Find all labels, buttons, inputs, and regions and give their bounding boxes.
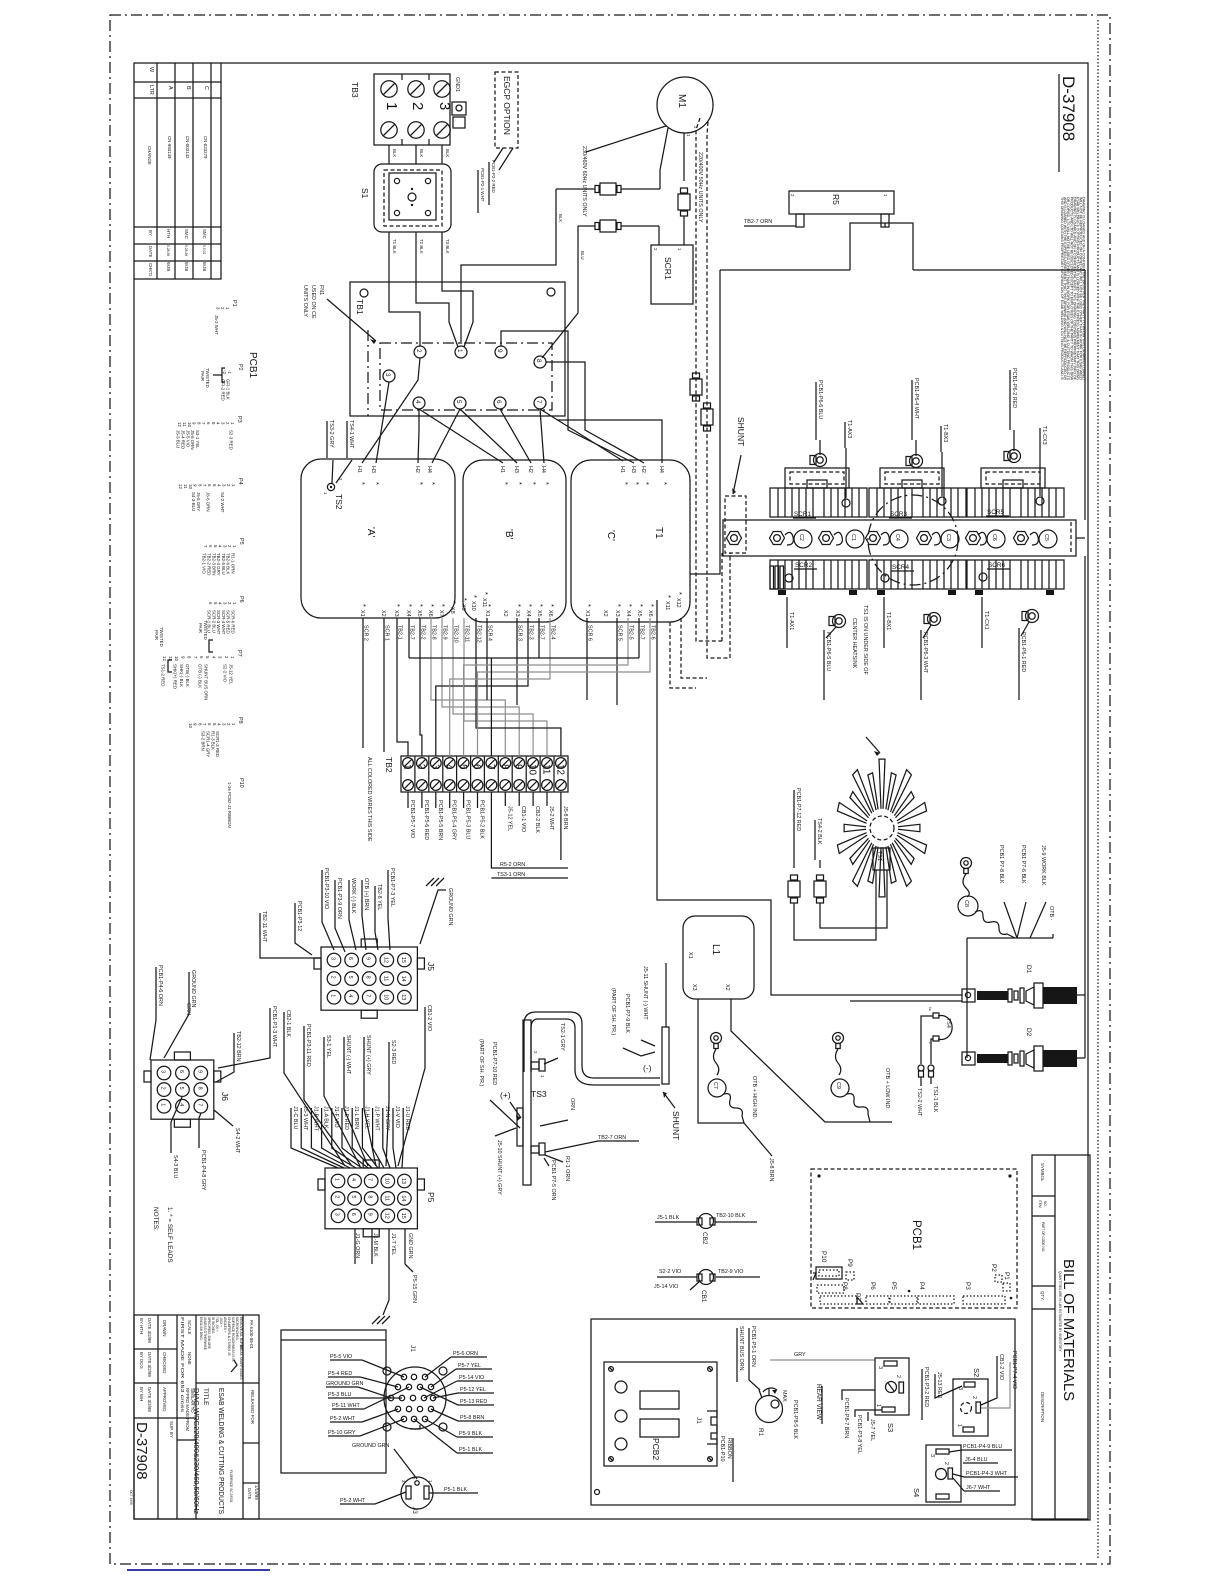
svg-text:TS1-1 BLK: TS1-1 BLK <box>932 1086 938 1113</box>
svg-text:L1: L1 <box>710 944 721 956</box>
PCB1 connector P7 <box>854 1293 863 1304</box>
svg-text:6: 6 <box>347 957 353 960</box>
note FN1 USED ON CE UNITS ONLY <box>302 285 376 344</box>
svg-text:T3 BLK: T3 BLK <box>445 239 450 254</box>
svg-text:J1-M BLK: J1-M BLK <box>372 1233 378 1257</box>
label GRN near J1 <box>0 0 1 1</box>
wire BLU filter to TB1 term 8 <box>542 226 585 358</box>
svg-text:TOL .XX +: TOL .XX + <box>215 1317 219 1332</box>
svg-text:CB1-2 VIO: CB1-2 VIO <box>426 1005 432 1031</box>
svg-text:QTY.: QTY. <box>1040 1291 1045 1301</box>
svg-text:X3: X3 <box>514 610 520 617</box>
wire L1 X3 down to C7 junction <box>698 999 744 1123</box>
svg-text:PCB1-P10: PCB1-P10 <box>719 1436 725 1461</box>
svg-text:DATE 3/2/98: DATE 3/2/98 <box>147 1387 152 1412</box>
TB1 terminal 7 <box>534 397 546 409</box>
bus enclosure outline <box>690 270 1085 1058</box>
svg-text:X6: X6 <box>427 610 433 617</box>
svg-text:*: * <box>625 604 634 607</box>
splice TS1-1 <box>928 1065 938 1113</box>
svg-text:*: * <box>536 604 545 607</box>
svg-text:GND1: GND1 <box>454 77 460 92</box>
svg-text:PCB1-P4-3 WHT: PCB1-P4-3 WHT <box>966 1471 1008 1477</box>
label J5-11 SHUNT (-) WHT <box>641 966 655 1046</box>
svg-text:ESAB WELDING & CUTTING PRODUCT: ESAB WELDING & CUTTING PRODUCTS <box>217 1388 226 1514</box>
svg-text:10: 10 <box>174 656 179 661</box>
svg-text:12: 12 <box>177 422 182 427</box>
svg-text:FLORENCE SC 29501: FLORENCE SC 29501 <box>229 1470 233 1503</box>
svg-text:MICROINCHES.: MICROINCHES. <box>235 1317 239 1341</box>
svg-text:PCB1-P5-7 VIO: PCB1-P5-7 VIO <box>409 800 415 838</box>
svg-text:1: 1 <box>383 102 400 110</box>
svg-text:SCR5: SCR5 <box>987 509 1004 516</box>
PCB1 connector P9 <box>846 1259 854 1280</box>
svg-text:J1-V VIO: J1-V VIO <box>394 1106 400 1128</box>
svg-text:R1-1 ORN: R1-1 ORN <box>564 1156 570 1181</box>
svg-text:WJB: WJB <box>184 262 189 271</box>
capacitor C3 <box>932 530 959 548</box>
label TS3-2 GRY <box>327 420 334 458</box>
svg-text:BY WH: BY WH <box>139 1387 144 1401</box>
svg-text:P5-1 BLK: P5-1 BLK <box>459 1447 482 1453</box>
svg-text:P5-15 GRN: P5-15 GRN <box>411 1275 417 1303</box>
svg-text:P4: P4 <box>918 1282 925 1290</box>
label PCB1-P6-4 WHT <box>912 378 919 456</box>
svg-text:RIBBON: RIBBON <box>726 1438 732 1459</box>
label SHUNT upper <box>732 417 746 494</box>
label (-) <box>643 1063 652 1073</box>
svg-text:HTH: HTH <box>166 229 171 238</box>
svg-text:BY DCG: BY DCG <box>139 1352 144 1369</box>
svg-text:*: * <box>405 604 414 607</box>
svg-text:CB1-2 VIO: CB1-2 VIO <box>998 1354 1004 1380</box>
wire TB1 term 8 to H2-C <box>546 362 644 463</box>
inductor L1 <box>683 916 754 999</box>
svg-text:6: 6 <box>350 1213 356 1216</box>
svg-text:*: * <box>647 604 656 607</box>
svg-text:SCR1: SCR1 <box>794 511 811 518</box>
label J6-7 WHT <box>953 1478 1000 1491</box>
svg-text:J5-14 VIO: J5-14 VIO <box>654 1284 678 1290</box>
svg-text:S2: S2 <box>972 1368 981 1377</box>
label T1-BX1 <box>884 597 891 648</box>
svg-text:P5-4 RED: P5-4 RED <box>328 1371 352 1377</box>
svg-text:BY: BY <box>148 230 153 236</box>
switch S2 <box>953 1368 988 1436</box>
svg-text:CN-993149: CN-993149 <box>167 136 172 159</box>
shunt minus bar <box>662 963 669 1084</box>
svg-text:10: 10 <box>188 723 193 728</box>
splice TS2-2 <box>916 1065 924 1117</box>
svg-text:*: * <box>449 601 458 604</box>
svg-text:DATE: DATE <box>148 246 153 257</box>
svg-text:CHANGE: CHANGE <box>147 146 152 165</box>
svg-text:C1: C1 <box>850 534 856 541</box>
T1 X2 bus connection plates <box>770 566 784 589</box>
wires below TB2 to PCB1-P5 <box>408 792 568 878</box>
wire GROUND GRN to J3 <box>352 1443 417 1479</box>
svg-text:12: 12 <box>554 764 565 776</box>
svg-text:P5-11 WHT: P5-11 WHT <box>332 1403 360 1409</box>
svg-text:D1: D1 <box>1025 965 1032 974</box>
svg-text:J3: J3 <box>411 1507 418 1514</box>
wire TB3-1 to S1 <box>389 145 397 164</box>
label J5-9 WORK BLK <box>1040 845 1046 886</box>
svg-text:FN1: FN1 <box>318 285 324 295</box>
svg-text:11: 11 <box>383 1195 389 1201</box>
svg-text:P5-1 BLK: P5-1 BLK <box>444 1487 467 1493</box>
svg-text:OTB(-) BLK: OTB(-) BLK <box>185 664 190 687</box>
svg-text:PCB1-P7-4 VIO: PCB1-P7-4 VIO <box>1011 1351 1017 1389</box>
connector J3 <box>340 1477 478 1514</box>
svg-text:*: * <box>542 482 551 485</box>
svg-text:SCR2: SCR2 <box>795 562 812 569</box>
svg-text:TS4-2 BLK: TS4-2 BLK <box>816 818 822 845</box>
svg-text:15: 15 <box>400 957 406 963</box>
svg-text:J1-T YEL: J1-T YEL <box>390 1233 396 1255</box>
SCR1 clamp assembly <box>785 454 849 489</box>
svg-text:RELEASED FOR: RELEASED FOR <box>250 1390 255 1424</box>
svg-text:H3: H3 <box>630 466 636 473</box>
svg-text:SHUNT: SHUNT <box>736 417 746 446</box>
svg-text:C6: C6 <box>991 534 997 541</box>
svg-text:C: C <box>203 86 209 90</box>
TB1 terminal 2 <box>414 346 426 358</box>
svg-text:S4-2 WHT: S4-2 WHT <box>220 492 225 513</box>
svg-text:X9: X9 <box>460 604 466 611</box>
svg-text:PCB1-P5-2 BLK: PCB1-P5-2 BLK <box>479 800 485 839</box>
svg-text:SMC: SMC <box>202 229 207 239</box>
svg-text:TS3-1 ORN: TS3-1 ORN <box>497 872 525 878</box>
label SHUNT BUS ORN <box>737 1326 744 1382</box>
svg-text:1: 1 <box>330 994 336 997</box>
svg-text:PCB1-P5-4 GRY: PCB1-P5-4 GRY <box>451 800 457 841</box>
wire T1 routing inside TB1 <box>389 283 420 346</box>
svg-text:PCB1-P6-4 WHT: PCB1-P6-4 WHT <box>913 378 919 420</box>
svg-text:TS3-2 GRY: TS3-2 GRY <box>328 420 334 448</box>
svg-text:J6-4 BLU: J6-4 BLU <box>965 1457 988 1463</box>
label PCB1-P6-6 BLU <box>816 380 823 455</box>
svg-text:8: 8 <box>367 1195 373 1198</box>
svg-text:P5: P5 <box>238 538 244 545</box>
svg-text:10: 10 <box>383 1178 389 1184</box>
line filter ferrite upper <box>556 183 660 195</box>
svg-text:TS4: TS4 <box>945 1018 951 1028</box>
svg-text:TB2-9 VIO: TB2-9 VIO <box>718 1269 743 1275</box>
label TS4-1 WHT <box>347 420 354 458</box>
svg-text:3: 3 <box>429 764 440 770</box>
svg-text:9: 9 <box>496 349 503 353</box>
svg-text:PCB1-P5-6 RED: PCB1-P5-6 RED <box>423 800 429 840</box>
svg-text:TB2-8 YEL: TB2-8 YEL <box>376 884 382 910</box>
svg-text:ENGLISH DWG.: ENGLISH DWG. <box>199 1317 203 1341</box>
switch S4 <box>912 1445 961 1502</box>
svg-text:*: * <box>359 604 368 607</box>
wire H4-C stub <box>557 420 662 463</box>
svg-text:J6-7 WHT: J6-7 WHT <box>966 1485 991 1491</box>
svg-text:PCB1-P4-9 BLU: PCB1-P4-9 BLU <box>963 1444 1002 1450</box>
wire BLK filter to TB1 term 1 <box>461 189 563 344</box>
dashed CE jumpers at T1 X11 X12 <box>670 618 707 688</box>
svg-text:TB2: TB2 <box>384 757 394 773</box>
svg-text:2: 2 <box>880 859 884 861</box>
label PCB1-P5-1 ORN <box>749 1326 760 1390</box>
svg-text:H3: H3 <box>513 466 519 473</box>
terminal board TB1 <box>350 282 565 416</box>
svg-text:SCR6: SCR6 <box>988 562 1005 569</box>
svg-text:J5-1 BLK: J5-1 BLK <box>657 1215 680 1221</box>
svg-text:1a: 1a <box>928 1007 932 1011</box>
svg-text:5: 5 <box>455 400 462 404</box>
bus bar right end cap <box>1070 522 1072 554</box>
capacitor C7 <box>708 1033 744 1124</box>
svg-text:8: 8 <box>365 976 371 979</box>
label PCB1-P8-5 BLK <box>792 1400 798 1439</box>
title block <box>129 1315 259 1519</box>
diode D2 <box>962 1028 1085 1071</box>
label PCB1-P6-2 RED <box>1010 368 1017 451</box>
svg-text:PAIR: PAIR <box>200 371 205 381</box>
mounting plate by J1 <box>281 1330 386 1473</box>
capacitor C9 <box>831 1033 870 1123</box>
svg-text:1: 1 <box>334 1178 340 1181</box>
svg-text:X8: X8 <box>449 607 455 614</box>
TB1 terminal 6 <box>494 397 506 409</box>
label SHUNT lower <box>663 1092 681 1140</box>
SCR5 heatsink <box>967 488 1064 517</box>
svg-text:*: * <box>614 604 623 607</box>
label T1-CX1 <box>982 597 989 648</box>
svg-text:J5-3 BLU: J5-3 BLU <box>176 430 181 448</box>
svg-text:J5-2 WHT: J5-2 WHT <box>548 806 554 831</box>
svg-text:*: * <box>632 482 641 485</box>
svg-text:PCB1-P7-10 RED: PCB1-P7-10 RED <box>491 1042 497 1085</box>
svg-text:CB2: CB2 <box>701 1232 708 1245</box>
label PCB1-P1-3 WHT <box>218 1006 277 1068</box>
SCR3 clamp assembly <box>880 455 944 489</box>
svg-text:*: * <box>416 604 425 607</box>
svg-text:S2-3 RED: S2-3 RED <box>390 1040 396 1064</box>
svg-text:PAIR: PAIR <box>154 630 159 640</box>
svg-text:3: 3 <box>330 957 336 960</box>
svg-text:PCB1: PCB1 <box>910 1220 922 1250</box>
svg-text:PCB1-P3-10 VIO: PCB1-P3-10 VIO <box>323 868 329 909</box>
svg-text:9: 9 <box>513 764 524 770</box>
svg-text:PCB1 P7-6 BLK: PCB1 P7-6 BLK <box>1020 845 1026 884</box>
label T1-CX3 <box>1040 426 1047 496</box>
svg-text:TS2-2 WHT: TS2-2 WHT <box>916 1088 922 1117</box>
svg-text:J5-8 BRN: J5-8 BRN <box>768 1158 774 1181</box>
svg-text:14: 14 <box>400 976 406 982</box>
svg-text:10: 10 <box>527 764 538 776</box>
svg-text:H1: H1 <box>619 466 625 473</box>
capacitor C4 <box>881 530 908 548</box>
svg-text:T1-CX3: T1-CX3 <box>1041 426 1047 445</box>
svg-text:2: 2 <box>415 764 426 770</box>
winding C H pins <box>619 466 669 485</box>
svg-text:DRAWN: DRAWN <box>162 1320 167 1336</box>
svg-text:J5-8 BRN: J5-8 BRN <box>562 806 568 829</box>
J1 pin labels right <box>414 1351 494 1453</box>
svg-text:P5-7 YEL: P5-7 YEL <box>458 1363 481 1369</box>
svg-text:TB1: TB1 <box>355 299 365 315</box>
svg-text:*: * <box>427 604 436 607</box>
svg-text:GROUND GRN: GROUND GRN <box>447 888 453 926</box>
SCR2 clamp bolt <box>829 615 846 628</box>
svg-text:SCR3: SCR3 <box>890 511 907 518</box>
svg-text:*: * <box>642 482 651 485</box>
svg-text:H4: H4 <box>426 466 432 473</box>
svg-text:X4: X4 <box>625 610 631 617</box>
svg-text:S4: S4 <box>912 1488 921 1497</box>
svg-text:X1: X1 <box>359 610 365 617</box>
svg-text:R5-2 ORN: R5-2 ORN <box>500 862 525 868</box>
svg-text:GND GRN: GND GRN <box>407 1233 413 1259</box>
SCR1 heatsink <box>770 488 867 518</box>
connector P5 <box>318 1160 436 1237</box>
dashed CE wire pair from M1 <box>696 118 730 658</box>
wire T3 BLK S1 to TB1 <box>442 232 450 283</box>
svg-text:*: * <box>675 592 684 595</box>
svg-text:X5: X5 <box>536 610 542 617</box>
notes self leads <box>152 1207 173 1263</box>
svg-text:S1: S1 <box>360 188 370 199</box>
svg-text:PCB1-P6-3 WHT: PCB1-P6-3 WHT <box>922 632 928 674</box>
line filter ferrite lower <box>578 220 659 232</box>
svg-text:*: * <box>393 604 402 607</box>
connector J1 chassis <box>383 1345 447 1431</box>
svg-text:*: * <box>584 604 593 607</box>
svg-text:X1: X1 <box>687 952 693 959</box>
terminal strip TB2 <box>366 756 568 842</box>
svg-text:BLU: BLU <box>580 251 585 260</box>
svg-text:PCB1-P7-9 BLK: PCB1-P7-9 BLK <box>624 994 630 1033</box>
svg-text:7: 7 <box>196 1103 202 1106</box>
label J5-7 YEL <box>868 1412 875 1441</box>
svg-text:11: 11 <box>382 976 388 982</box>
svg-text:SCR1: SCR1 <box>663 257 673 280</box>
svg-text:OTB -: OTB - <box>1048 906 1054 921</box>
svg-text:DATE 3/2/98: DATE 3/2/98 <box>147 1318 152 1343</box>
center heatsink (star profile) <box>837 759 926 897</box>
thermal switch SCR1 <box>651 245 693 304</box>
svg-text:J1: J1 <box>695 1417 702 1424</box>
svg-text:7: 7 <box>535 400 542 404</box>
svg-text:CENTER HEATSINK: CENTER HEATSINK <box>851 618 857 669</box>
svg-text:PCB1-P1-3 WHT: PCB1-P1-3 WHT <box>271 1006 277 1048</box>
svg-text:PCB1-P4-6 ORN: PCB1-P4-6 ORN <box>157 965 163 1006</box>
svg-text:PCB1-P2-1 WHT: PCB1-P2-1 WHT <box>480 168 485 202</box>
capacitor C6 <box>978 530 1005 548</box>
svg-text:FIRST MADE FOR 653 cross: FIRST MADE FOR 653 cross <box>180 1317 185 1413</box>
svg-text:P2: P2 <box>990 1264 997 1272</box>
svg-text:P3: P3 <box>236 416 242 423</box>
svg-text:GROUND GRN: GROUND GRN <box>326 1381 364 1387</box>
svg-text:7: 7 <box>365 994 371 997</box>
svg-text:*: * <box>416 482 425 485</box>
svg-text:X2: X2 <box>602 610 608 617</box>
capacitor C8 <box>958 858 1015 939</box>
label 220/400V 50Hz UNITS ONLY <box>697 152 703 223</box>
svg-text:MAX: MAX <box>781 1390 787 1402</box>
svg-text:X6: X6 <box>647 610 653 617</box>
svg-text:R5: R5 <box>831 194 841 205</box>
svg-text:TS1-2 RED: TS1-2 RED <box>160 664 165 686</box>
svg-text:4: 4 <box>443 764 454 770</box>
svg-text:X2: X2 <box>380 610 386 617</box>
svg-text:TS3: TS3 <box>531 1089 547 1099</box>
svg-text:'C': 'C' <box>605 530 616 541</box>
svg-text:D-37908: D-37908 <box>1059 76 1078 141</box>
svg-text:P4: P4 <box>237 478 243 485</box>
svg-text:J5-11 SHUNT (-) WHT: J5-11 SHUNT (-) WHT <box>642 966 648 1020</box>
wires winding X pins to TB2 <box>363 618 656 756</box>
svg-text:PCB1 P7-5 ORN: PCB1 P7-5 ORN <box>550 1160 556 1201</box>
winding B H pins <box>499 466 551 485</box>
svg-text:CHECKED: CHECKED <box>162 1352 167 1373</box>
svg-text:2: 2 <box>895 1375 901 1378</box>
wire L1 X2 to OTB+ <box>731 999 892 1122</box>
svg-text:B: B <box>185 86 191 90</box>
svg-text:SHUNT: SHUNT <box>671 1111 681 1140</box>
svg-text:SYMBOL: SYMBOL <box>1040 1163 1045 1182</box>
svg-text:.XXX +: .XXX + <box>219 1317 223 1327</box>
svg-text:12: 12 <box>383 1213 389 1219</box>
svg-text:ALL COLORED WIRES THIS SIDE: ALL COLORED WIRES THIS SIDE <box>366 757 372 842</box>
svg-text:3: 3 <box>929 1454 935 1457</box>
svg-text:6: 6 <box>471 764 482 770</box>
svg-text:USED ON CE: USED ON CE <box>310 285 316 319</box>
svg-text:PCB1-P8-5 BLK: PCB1-P8-5 BLK <box>792 1400 798 1439</box>
wire TB1 term 4 to H2-A and H1-B <box>418 409 503 463</box>
svg-text:SUP. BY: SUP. BY <box>169 1421 174 1438</box>
svg-text:DIAG,WRG220/400&230/460,50/60H: DIAG,WRG220/400&230/460,50/60Hz <box>192 1388 201 1514</box>
svg-text:*: * <box>529 482 538 485</box>
svg-text:C3: C3 <box>945 534 951 541</box>
svg-text:CHK'D: CHK'D <box>148 263 153 276</box>
svg-text:J5-12 YEL: J5-12 YEL <box>506 806 512 831</box>
svg-text:PCB1-P6-2 RED: PCB1-P6-2 RED <box>1011 368 1017 408</box>
svg-text:1: 1 <box>402 764 413 770</box>
thermostat TS2 <box>323 460 352 510</box>
splice on TS1 wire 1 <box>788 875 800 903</box>
svg-text:1: 1 <box>456 349 463 353</box>
svg-text:13: 13 <box>400 1178 406 1184</box>
svg-text:220/400V 50Hz UNITS ONLY: 220/400V 50Hz UNITS ONLY <box>697 152 703 223</box>
svg-text:S2-2 VIO: S2-2 VIO <box>222 664 227 683</box>
svg-text:S3-1 YEL: S3-1 YEL <box>325 1035 331 1058</box>
svg-text:J5: J5 <box>426 962 436 971</box>
svg-text:PCB1-P6-1 RED: PCB1-P6-1 RED <box>1020 632 1026 672</box>
svg-text:P5-13 RED: P5-13 RED <box>460 1399 487 1405</box>
svg-text:12: 12 <box>178 484 183 489</box>
svg-text:WORK (-) BLK: WORK (-) BLK <box>350 878 356 914</box>
svg-text:PCB1-P3-8 YEL: PCB1-P3-8 YEL <box>856 1415 862 1454</box>
svg-text:PA 6100-99-01: PA 6100-99-01 <box>249 1320 254 1350</box>
svg-text:DATE 3/2/98: DATE 3/2/98 <box>147 1352 152 1377</box>
label PCB1-P7-9 BLK <box>623 994 655 1056</box>
svg-text:ORN: ORN <box>569 1098 575 1110</box>
svg-text:RFPRD MADE FROM: RFPRD MADE FROM <box>185 1388 190 1432</box>
svg-text:X2: X2 <box>724 984 730 991</box>
svg-text:OTB (+) BRN: OTB (+) BRN <box>363 878 369 910</box>
svg-text:S3-2 BRN: S3-2 BRN <box>201 731 206 751</box>
svg-text:9: 9 <box>367 1213 373 1216</box>
svg-text:10: 10 <box>382 994 388 1000</box>
svg-text:J5-7 YEL: J5-7 YEL <box>869 1419 875 1441</box>
svg-text:OTB + LOW IND.: OTB + LOW IND. <box>884 1068 890 1110</box>
svg-text:X5: X5 <box>416 610 422 617</box>
